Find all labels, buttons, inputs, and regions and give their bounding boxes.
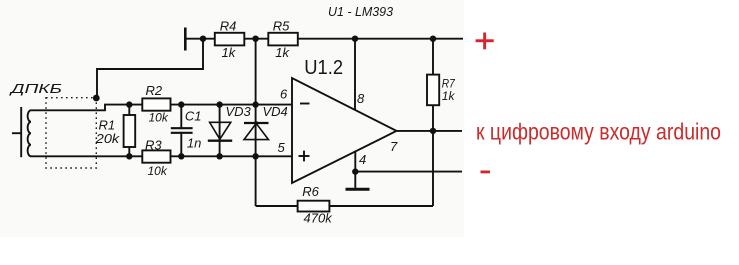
svg-text:8: 8 (357, 91, 365, 106)
wire C1 vertical (180, 105, 182, 129)
node dot C1 top (178, 101, 184, 107)
resistor R1 (124, 115, 136, 147)
svg-text:VD3: VD3 (226, 104, 252, 119)
svg-text:7: 7 (390, 139, 398, 154)
svg-text:1k: 1k (222, 45, 237, 60)
svg-text:VD4: VD4 (263, 104, 288, 119)
resistor R6 (298, 201, 330, 212)
wire R1 vertical (128, 105, 130, 157)
wire from rail down at x=203 (97, 39, 203, 98)
wire VD3 vertical (219, 105, 221, 157)
node dot VD3 bottom (216, 153, 222, 159)
svg-text:C1: C1 (185, 109, 202, 124)
svg-text:6: 6 (280, 87, 288, 102)
svg-text:R4: R4 (220, 19, 237, 34)
wire R6 feedback bottom (256, 205, 433, 207)
node dot output (430, 128, 436, 134)
op-amp inverting input minus sign (300, 103, 310, 105)
svg-text:R5: R5 (273, 19, 290, 34)
node dot VD3 top (216, 101, 222, 107)
annotation minus terminal (481, 171, 491, 174)
node dot R7 rail (430, 36, 436, 42)
op-amp U1.2 (292, 78, 397, 183)
svg-text:R2: R2 (146, 83, 163, 98)
svg-text:1k: 1k (442, 89, 456, 103)
svg-text:1k: 1k (275, 45, 290, 60)
svg-text:4: 4 (359, 152, 366, 167)
scanned schematic background (0, 0, 464, 237)
node dot VD4 bottom (252, 153, 258, 159)
node dot pin8 rail (352, 36, 358, 42)
sensor core lead wire (12, 132, 21, 134)
node dot pin4 ground (352, 168, 358, 174)
sensor core bar (20, 107, 22, 157)
svg-text:5: 5 (278, 140, 286, 155)
wire + rail top (185, 38, 463, 40)
wire VD4 / divider vertical (255, 39, 257, 206)
sensor shield dashed box (46, 98, 96, 168)
capacitor C1 (171, 128, 193, 133)
wire pin 8 vertical (354, 39, 356, 111)
svg-text:R3: R3 (145, 137, 162, 152)
resistor R7 (427, 75, 439, 106)
resistor R5 (268, 33, 298, 46)
svg-text:ДПКБ: ДПКБ (8, 81, 63, 96)
wire pin 4 vertical (354, 151, 356, 188)
node dot R1 top (126, 101, 132, 107)
svg-text:10k: 10k (148, 164, 168, 178)
svg-text:20k: 20k (95, 131, 121, 146)
svg-text:U1.2: U1.2 (304, 56, 343, 79)
diode VD4 (244, 121, 269, 139)
node dot R1 bottom (126, 153, 132, 159)
diode VD3 (208, 122, 232, 140)
op-amp non-inverting input plus sign (299, 151, 310, 162)
wire ground / minus rail (355, 171, 462, 173)
resistor R3 (142, 150, 170, 162)
node dot rail/R4 (200, 36, 206, 42)
wire coil top (31, 105, 292, 111)
svg-text:U1 - LM393: U1 - LM393 (328, 4, 394, 19)
terminal bar (supply stub) (184, 28, 187, 51)
node dot shield (93, 95, 100, 102)
wire output (397, 130, 463, 132)
svg-text:R6: R6 (302, 184, 319, 199)
wire R7 / output-to-R6 vertical (432, 39, 434, 206)
svg-text:1n: 1n (187, 135, 201, 150)
annotation plus terminal (476, 33, 494, 50)
svg-text:к цифровому входу arduino: к цифровому входу arduino (476, 118, 721, 144)
resistor R4 (215, 33, 245, 46)
node dot R4/R5 (252, 36, 258, 42)
node dot VD4 top (252, 101, 258, 107)
wire bottom signal (31, 155, 292, 157)
svg-text:10k: 10k (149, 110, 169, 124)
svg-text:470k: 470k (304, 211, 334, 226)
ground symbol (346, 188, 370, 191)
node dot C1 bottom (178, 153, 184, 159)
resistor R2 (142, 98, 170, 110)
inductor L (sensor coil) (28, 110, 31, 156)
